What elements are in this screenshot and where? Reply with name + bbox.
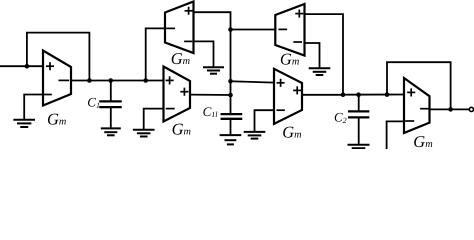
capacitor C1 [110, 81, 112, 101]
U1 minus input marker [45, 94, 52, 96]
U3 output plus marker [181, 89, 187, 95]
U5 output plus marker [294, 87, 300, 93]
junction feedback/bus [87, 78, 92, 83]
junction feedback U6/V3 [385, 92, 390, 97]
U6 minus input marker [406, 120, 413, 122]
op-amp U1 (transconductor Gm, leftmost) [43, 51, 71, 106]
node V1 bus [71, 80, 164, 82]
ground at C1 [102, 128, 120, 135]
wire U3 minus input to ground [144, 109, 164, 129]
capacitor C1i [222, 113, 241, 115]
U2 minus input marker [185, 40, 192, 42]
wire U6 output [430, 108, 470, 110]
op-amp U3 (bottom middle-left Gm, points right) [164, 67, 191, 122]
wire feedback loop around U6 [387, 62, 451, 109]
svg-text:Gm: Gm [282, 122, 301, 141]
wire U4 output [231, 29, 276, 31]
svg-text:C1l: C1l [203, 104, 219, 119]
ground at U1 minus input [14, 120, 34, 127]
wire U2 plus input to node V2 [194, 12, 231, 113]
node V2 bus to U5 [231, 81, 275, 82]
ground at U4 minus input [310, 68, 330, 75]
U3 plus input marker [166, 77, 172, 83]
junction node V2/bus [228, 79, 233, 84]
ground at U3 minus input [134, 130, 154, 137]
U2 plus input marker [185, 8, 191, 14]
ground at U2 minus input [204, 67, 223, 74]
ground at U5 minus input [245, 132, 265, 139]
wire U4 plus input to node V3 [305, 14, 344, 95]
capacitor C2 [358, 95, 360, 111]
wire U2 minus input to ground [194, 41, 214, 66]
U5 plus input marker [277, 80, 283, 86]
output terminal [469, 107, 473, 111]
U6 output minus marker [421, 108, 428, 110]
U1 output minus marker [59, 79, 68, 81]
svg-text:Gm: Gm [413, 132, 432, 149]
U5 minus input marker [277, 109, 284, 111]
junction C2/V3 [356, 92, 361, 97]
ground at C2 [349, 145, 369, 148]
junction feedback/input [25, 64, 30, 69]
op-amp U5 (bottom middle-right Gm, points right) [274, 69, 302, 124]
wire U4 minus input to ground [305, 43, 320, 68]
U6 plus input marker [408, 89, 414, 95]
wire U6 minus input to ground [387, 121, 404, 149]
svg-text:Gm: Gm [171, 49, 190, 68]
svg-text:C2: C2 [334, 109, 347, 125]
junction U4 input/V3 [341, 92, 346, 97]
U4 plus input marker [296, 10, 302, 16]
svg-text:Gm: Gm [172, 120, 191, 139]
wire U5 minus input to ground [255, 110, 275, 131]
wire U5 output to node V3 [302, 94, 343, 96]
op-amp U4 (top middle-right Gm, points left) [275, 4, 304, 56]
wire U3 output [190, 94, 231, 96]
junction feedback/output [448, 107, 453, 112]
junction C1/bus [108, 78, 113, 83]
node V3 wire [343, 94, 404, 96]
wire feedback loop around U1 [27, 33, 90, 81]
junction U4 output/node V2 [228, 27, 233, 32]
op-amp U6 (rightmost Gm) [404, 78, 430, 133]
U2 output minus marker [167, 27, 174, 29]
U4 minus input marker [294, 41, 301, 43]
ground at C1i [221, 135, 241, 144]
op-amp U2 (top middle-left Gm, points left) [165, 2, 194, 54]
svg-text:C1: C1 [87, 95, 100, 111]
junction U3 output/node V2 [228, 93, 233, 98]
U3 minus input marker [167, 108, 174, 110]
wire U2 output down to bus [146, 28, 165, 80]
wire Vin input [0, 65, 43, 67]
U4 output minus marker [279, 28, 286, 30]
junction U2 output/bus [143, 78, 148, 83]
svg-text:Gm: Gm [47, 110, 66, 129]
wire U1 minus input to ground [24, 95, 43, 120]
U1 plus input marker [47, 63, 53, 69]
